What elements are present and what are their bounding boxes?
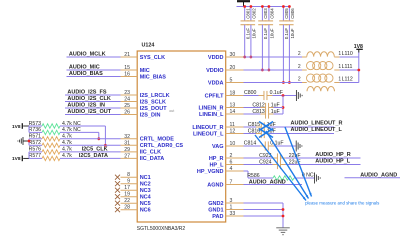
svg-text:C813: C813 bbox=[252, 109, 265, 115]
capacitor C803 bbox=[258, 21, 266, 25]
svg-text:AUDIO_I2S_CLK: AUDIO_I2S_CLK bbox=[67, 96, 110, 102]
pin 10 VAG stub bbox=[226, 145, 244, 147]
svg-text:20: 20 bbox=[230, 65, 236, 71]
wire GND2 bbox=[244, 202, 284, 204]
svg-text:2: 2 bbox=[298, 51, 301, 57]
svg-text:2: 2 bbox=[298, 77, 301, 83]
svg-text:29: 29 bbox=[124, 147, 130, 153]
svg-text:24: 24 bbox=[124, 97, 130, 103]
wire L111 to 1V8 rail bbox=[340, 69, 359, 71]
annotation arrow 3 bbox=[285, 127, 312, 197]
wire C800 to gnd bbox=[273, 95, 297, 97]
wire C806 bottom bbox=[288, 25, 290, 83]
inductor L112 coil bbox=[307, 74, 334, 82]
junction rail C804 bbox=[268, 5, 271, 8]
inductor L111 pin 2 bbox=[302, 69, 307, 71]
capacitor C816 bbox=[261, 129, 264, 138]
wire C813 left bbox=[244, 113, 261, 115]
capacitor C924 pin2 bbox=[280, 164, 285, 166]
svg-text:LINEIN_R: LINEIN_R bbox=[198, 105, 223, 111]
wire C806 top bbox=[288, 7, 290, 21]
capacitor C923 pin2 bbox=[280, 157, 285, 159]
svg-text:NC1: NC1 bbox=[140, 175, 151, 181]
svg-text:10uF: 10uF bbox=[290, 28, 295, 38]
capacitor C814 pin1 bbox=[260, 145, 265, 147]
wire R573 right bbox=[60, 125, 105, 127]
svg-text:VDDA: VDDA bbox=[208, 80, 224, 86]
capacitor C801 bbox=[241, 21, 249, 25]
ground symbol CPFILT bbox=[296, 90, 302, 101]
svg-text:AUDIO_HP_L: AUDIO_HP_L bbox=[315, 158, 350, 164]
pin 17 NC3 stub bbox=[121, 189, 138, 191]
wire L112 to 1V8 rail bbox=[340, 82, 359, 84]
pin 5 VDDA stub bbox=[226, 82, 244, 84]
capacitor C813 pin2 bbox=[269, 113, 274, 115]
resistor R573 zigzag bbox=[42, 124, 60, 128]
resistor R571 zigzag bbox=[42, 137, 60, 141]
wire vert gnd net to linein caps bbox=[282, 96, 284, 115]
wire C816 left bbox=[244, 133, 257, 135]
power flag 1V8 bottom bbox=[12, 156, 22, 163]
svg-text:17: 17 bbox=[124, 185, 130, 191]
svg-text:VDDD: VDDD bbox=[208, 55, 224, 61]
wire net AUDIO_HP_L bbox=[285, 164, 360, 166]
svg-text:AUDIO_AGND: AUDIO_AGND bbox=[249, 180, 286, 186]
svg-text:30: 30 bbox=[230, 52, 236, 58]
wire IIC_CLK net I2C5_CLK bbox=[60, 151, 121, 153]
svg-text:LINEOUT_R: LINEOUT_R bbox=[192, 125, 223, 131]
svg-text:15: 15 bbox=[124, 65, 130, 71]
svg-text:26: 26 bbox=[124, 110, 130, 116]
svg-text:6: 6 bbox=[230, 160, 233, 166]
wire R736 left bbox=[29, 131, 42, 133]
svg-text:11: 11 bbox=[230, 122, 235, 128]
capacitor C806 bbox=[285, 21, 293, 25]
pin 30 VDDD stub bbox=[226, 56, 244, 58]
svg-text:NC4: NC4 bbox=[140, 195, 152, 201]
svg-text:AUDIO_MCLK: AUDIO_MCLK bbox=[69, 52, 106, 58]
junction pin31 row bbox=[104, 144, 107, 147]
svg-text:U124: U124 bbox=[142, 43, 155, 49]
svg-text:HP_L: HP_L bbox=[209, 162, 224, 168]
junction LINEIN_R cap bbox=[282, 106, 285, 109]
capacitor C800 pin2 bbox=[267, 95, 273, 97]
svg-text:AUDIO_MIC: AUDIO_MIC bbox=[69, 65, 100, 71]
power bar 1V8 top bbox=[237, 1, 250, 6]
ground symbol left bbox=[18, 137, 23, 145]
svg-text:C806: C806 bbox=[290, 8, 295, 19]
svg-text:9: 9 bbox=[127, 179, 130, 185]
inductor L110 pin 2 bbox=[302, 56, 307, 58]
svg-text:AUDIO_I2S_OUT: AUDIO_I2S_OUT bbox=[67, 109, 111, 115]
wire R573 left bbox=[29, 125, 42, 127]
wire CRTL_MODE bbox=[60, 138, 121, 140]
svg-text:0.1uF: 0.1uF bbox=[263, 28, 268, 40]
wire net AUDIO_I2S_FS bbox=[65, 94, 121, 96]
wire C802 top bbox=[250, 7, 252, 21]
svg-text:HP_R: HP_R bbox=[209, 156, 224, 162]
svg-text:C814: C814 bbox=[244, 140, 257, 146]
pin 19 NC4 stub bbox=[121, 196, 138, 198]
svg-text:PAD: PAD bbox=[212, 214, 223, 220]
wire net AUDIO_I2S_CLK bbox=[65, 101, 121, 103]
capacitor C816 pin2 bbox=[264, 133, 269, 135]
svg-text:3: 3 bbox=[230, 198, 233, 204]
wire C814 to gnd bbox=[274, 145, 296, 147]
svg-text:25: 25 bbox=[124, 103, 130, 109]
capacitor C815 bbox=[261, 122, 264, 131]
wire net AUDIO_MIC bbox=[67, 69, 121, 71]
capacitor C800 pin1 bbox=[259, 95, 264, 97]
wire 1V8 bottom bbox=[23, 157, 29, 159]
wire to R586 bbox=[248, 177, 273, 179]
wire C801 top bbox=[244, 7, 246, 21]
wire PAD bbox=[244, 215, 284, 217]
capacitor C805 bbox=[279, 21, 287, 25]
resistor R586 zigzag bbox=[273, 176, 294, 180]
svg-text:HP_VGND: HP_VGND bbox=[197, 169, 224, 175]
svg-text:C816: C816 bbox=[248, 128, 261, 134]
svg-text:13: 13 bbox=[230, 103, 236, 109]
svg-text:19: 19 bbox=[124, 192, 130, 198]
svg-text:AUDIO_AGND: AUDIO_AGND bbox=[360, 172, 397, 178]
svg-text:L112: L112 bbox=[342, 77, 353, 83]
pin 29 IIC_CLK stub bbox=[121, 151, 138, 153]
wire R572 left bbox=[29, 144, 42, 146]
svg-text:1V8: 1V8 bbox=[12, 124, 21, 130]
pin 2 HP_R stub bbox=[226, 157, 244, 159]
svg-text:14: 14 bbox=[230, 109, 236, 115]
pin 6 HP_L stub bbox=[226, 164, 244, 166]
wire R736 right bbox=[60, 131, 99, 133]
svg-text:I2S_LRCLK: I2S_LRCLK bbox=[140, 93, 170, 99]
inductor coil unlabeled bbox=[307, 87, 335, 92]
inductor L111 pin 1 bbox=[334, 69, 339, 71]
svg-text:AUDIO_I2S_IN: AUDIO_I2S_IN bbox=[67, 103, 105, 109]
capacitor C814 bbox=[265, 141, 268, 150]
junction rail C802 bbox=[250, 5, 253, 8]
svg-text:33: 33 bbox=[230, 211, 236, 217]
wire gnd to vert bbox=[23, 140, 29, 142]
wire R576 left bbox=[29, 151, 42, 153]
svg-text:I2S_DOUT: I2S_DOUT bbox=[140, 106, 168, 112]
junction rail C806 bbox=[288, 5, 291, 8]
capacitor C802 bbox=[247, 21, 255, 25]
junction rail C801 bbox=[243, 5, 246, 8]
svg-text:C800: C800 bbox=[244, 90, 257, 96]
svg-text:7: 7 bbox=[230, 180, 233, 186]
svg-text:SYS_CLK: SYS_CLK bbox=[140, 55, 165, 61]
wire net AUDIO_LINEOUT_L bbox=[270, 133, 335, 135]
svg-text:C812: C812 bbox=[252, 102, 265, 108]
svg-text:IIC_DATA: IIC_DATA bbox=[140, 156, 165, 162]
wire R586 right bbox=[294, 177, 314, 179]
svg-text:SGTL5000XNBA3/R2: SGTL5000XNBA3/R2 bbox=[137, 226, 186, 232]
pin 25 I2S_DOUT stub bbox=[121, 107, 138, 109]
inductor L111 coil bbox=[307, 62, 334, 70]
wire vert R736 to pin32 row bbox=[98, 132, 100, 138]
capacitor C923 bbox=[277, 153, 280, 162]
no-connect X NC4 bbox=[115, 194, 120, 199]
svg-text:I2S_SCLK: I2S_SCLK bbox=[140, 99, 166, 105]
wire HP_VGND bbox=[244, 170, 249, 172]
pin 15 MIC stub bbox=[121, 69, 138, 71]
svg-text:IIC_CLK: IIC_CLK bbox=[140, 150, 161, 156]
wire AUDIO_AGND right bbox=[345, 177, 400, 179]
wire net AUDIO_I2S_OUT bbox=[65, 114, 121, 116]
junction rail C805 bbox=[282, 5, 285, 8]
pin 22 NC5 stub bbox=[121, 202, 138, 204]
svg-text:1: 1 bbox=[230, 205, 233, 211]
junction pin32 row bbox=[97, 137, 100, 140]
svg-text:C815: C815 bbox=[248, 122, 261, 128]
svg-text:2: 2 bbox=[298, 64, 301, 70]
capacitor C813 bbox=[266, 109, 269, 118]
inductor L110 coil bbox=[307, 52, 335, 57]
svg-text:1uF: 1uF bbox=[271, 109, 280, 115]
svg-text:1uF: 1uF bbox=[271, 102, 280, 108]
svg-text:10: 10 bbox=[230, 141, 236, 147]
svg-text:I2C5_CLK: I2C5_CLK bbox=[82, 147, 108, 153]
svg-text:MIC_BIAS: MIC_BIAS bbox=[140, 74, 167, 80]
junction C801 VDDD bbox=[243, 56, 246, 59]
svg-text:I2C5_DATA: I2C5_DATA bbox=[79, 153, 108, 159]
wire C804 top bbox=[268, 7, 270, 21]
wire C805 top bbox=[282, 7, 284, 21]
inductor L112 pin 2 bbox=[302, 82, 307, 84]
svg-text:0.1uF: 0.1uF bbox=[270, 90, 283, 96]
svg-text:AUDIO_LINEOUT_L: AUDIO_LINEOUT_L bbox=[291, 127, 343, 133]
pin 32 CRTL_MODE stub bbox=[121, 138, 138, 140]
no-connect X NC3 bbox=[115, 188, 120, 193]
wire supply row to L111 bbox=[244, 69, 303, 71]
pin 13 LINEIN_R stub bbox=[226, 107, 244, 109]
wire GND1 bbox=[244, 209, 284, 211]
svg-text:MIC: MIC bbox=[140, 68, 150, 74]
wire C803 bottom bbox=[261, 25, 263, 70]
svg-text:NC5: NC5 bbox=[140, 201, 151, 207]
svg-text:C924: C924 bbox=[259, 159, 272, 165]
capacitor C815 pin1 bbox=[256, 126, 261, 128]
capacitor C804 bbox=[265, 21, 273, 25]
junction C803 VDDIO bbox=[261, 69, 264, 72]
svg-text:AUDIO_I2S_FS: AUDIO_I2S_FS bbox=[67, 90, 106, 96]
wire vert 1V8 to R736 row bbox=[28, 126, 30, 132]
wire top rail 1V8 bbox=[237, 6, 290, 8]
wire C923 left bbox=[244, 157, 273, 159]
wire C813 right bbox=[274, 113, 284, 115]
annotation X over C816 bbox=[259, 129, 273, 138]
capacitor C813 pin1 bbox=[261, 113, 266, 115]
no-connect X NC6 bbox=[115, 207, 120, 212]
svg-text:21: 21 bbox=[124, 52, 130, 58]
svg-text:5: 5 bbox=[230, 78, 233, 84]
wire C801 bottom bbox=[244, 25, 246, 57]
svg-text:CPFILT: CPFILT bbox=[205, 93, 224, 99]
wire net AUDIO_BIAS bbox=[67, 76, 121, 78]
wire net AUDIO_MCLK bbox=[67, 56, 121, 58]
pin 4 HP_VGND stub bbox=[226, 170, 244, 172]
svg-text:LINEIN_L: LINEIN_L bbox=[199, 112, 224, 118]
op-amp/codec U124 SGTL5000 body bbox=[137, 51, 226, 222]
pin 26 I2S_DIN stub bbox=[121, 114, 138, 116]
capacitor C812 bbox=[266, 103, 269, 112]
svg-text:AUDIO_BIAS: AUDIO_BIAS bbox=[69, 71, 103, 77]
wire C812 left bbox=[244, 107, 261, 109]
wire supply row to L112 bbox=[244, 82, 303, 84]
annotation arrow 2 bbox=[266, 131, 309, 199]
capacitor C816 pin1 bbox=[256, 133, 261, 135]
wire net AUDIO_I2S_IN bbox=[65, 107, 121, 109]
pin 1 GND1 stub bbox=[226, 209, 244, 211]
wire HP_VGND vert bbox=[247, 171, 249, 178]
wire vert R573 to pin31 row bbox=[104, 126, 106, 145]
junction PAD bbox=[282, 215, 285, 218]
junction C800 gnd net bbox=[282, 94, 285, 97]
wire C804 bottom bbox=[268, 25, 270, 70]
wire C802 bottom bbox=[250, 25, 252, 57]
svg-text:8: 8 bbox=[127, 172, 130, 178]
svg-text:2: 2 bbox=[230, 153, 233, 159]
svg-text:C802: C802 bbox=[252, 8, 257, 19]
svg-text:12: 12 bbox=[230, 129, 236, 135]
svg-text:C803: C803 bbox=[263, 8, 268, 19]
annotation X over C815 bbox=[259, 122, 273, 131]
pin 16 MIC_BIAS stub bbox=[121, 76, 138, 78]
capacitor C924 bbox=[277, 160, 280, 169]
svg-text:10uF: 10uF bbox=[252, 28, 257, 38]
pin 28 NC6 stub bbox=[121, 209, 138, 211]
wire vert R571-R572 bbox=[28, 139, 30, 146]
pin 31 CRTL_ADR0_CS stub bbox=[121, 144, 138, 146]
svg-text:C801: C801 bbox=[245, 8, 250, 19]
junction C805 VDDA bbox=[282, 81, 285, 84]
svg-text:GND2: GND2 bbox=[208, 201, 223, 207]
annotation arrow 1 bbox=[255, 135, 306, 201]
wire C924 left bbox=[244, 164, 273, 166]
wire R577 left bbox=[29, 157, 42, 159]
resistor R576 zigzag bbox=[42, 150, 60, 154]
svg-text:22: 22 bbox=[124, 198, 130, 204]
svg-text:4: 4 bbox=[230, 166, 233, 172]
wire IIC_DATA net I2C5_DATA bbox=[60, 157, 121, 159]
svg-text:NC2: NC2 bbox=[140, 182, 151, 188]
wire C815 left bbox=[244, 126, 257, 128]
wire CPFILT bbox=[244, 95, 259, 97]
svg-text:27: 27 bbox=[124, 153, 130, 159]
svg-text:VDDIO: VDDIO bbox=[206, 68, 224, 74]
wire 1V8 rail vertical bbox=[358, 53, 360, 83]
wire VAG bbox=[244, 145, 261, 147]
svg-text:C804: C804 bbox=[270, 8, 275, 19]
capacitor C924 pin1 bbox=[273, 164, 278, 166]
svg-text:AUDIO_HP_R: AUDIO_HP_R bbox=[315, 152, 350, 158]
wire 1V8 to R573 row bbox=[23, 125, 29, 127]
wire net AUDIO_HP_R bbox=[285, 157, 360, 159]
svg-text:AUDIO_LINEOUT_R: AUDIO_LINEOUT_R bbox=[291, 121, 343, 127]
junction gnd bbox=[28, 140, 31, 143]
svg-text:CRTL_ADR0_CS: CRTL_ADR0_CS bbox=[140, 143, 184, 149]
ground symbol VAG bbox=[296, 141, 302, 152]
svg-text:LINEOUT_L: LINEOUT_L bbox=[193, 131, 224, 137]
pin 3 GND2 stub bbox=[226, 202, 244, 204]
pin 23 I2S_LRCLK stub bbox=[121, 94, 138, 96]
svg-text:NC6: NC6 bbox=[140, 208, 151, 214]
capacitor C812 pin1 bbox=[261, 107, 266, 109]
wire C812 right bbox=[274, 107, 284, 109]
junction C806 VDDA bbox=[288, 81, 291, 84]
wire C805 bottom bbox=[282, 25, 284, 83]
pin 7 AGND stub bbox=[226, 184, 244, 186]
power flag 1V8 top bbox=[12, 123, 22, 130]
ground symbol bottom bbox=[276, 228, 290, 235]
inductor L110 pin 1 bbox=[334, 56, 339, 58]
svg-text:R586: R586 bbox=[247, 173, 260, 179]
capacitor C923 pin1 bbox=[273, 157, 278, 159]
no-connect X NC2 bbox=[115, 181, 120, 186]
pin 12 LINEOUT_L stub bbox=[226, 133, 244, 135]
svg-text:23: 23 bbox=[124, 90, 130, 96]
wire CRTL_ADR0_CS bbox=[60, 144, 121, 146]
svg-text:AGND: AGND bbox=[207, 182, 223, 188]
capacitor C812 pin2 bbox=[269, 107, 274, 109]
pin 11 LINEOUT_R stub bbox=[226, 126, 244, 128]
pin 24 I2S_SCLK stub bbox=[121, 101, 138, 103]
no-connect X NC1 bbox=[115, 175, 120, 180]
svg-text:GND1: GND1 bbox=[208, 207, 223, 213]
wire net AUDIO_LINEOUT_R bbox=[270, 126, 335, 128]
wire gnd vertical bbox=[282, 203, 284, 228]
svg-text:L110: L110 bbox=[342, 51, 353, 57]
junction L111 rail bbox=[357, 69, 360, 72]
svg-text:18: 18 bbox=[230, 91, 236, 97]
pin 27 IIC_DATA stub bbox=[121, 157, 138, 159]
resistor R577 zigzag bbox=[42, 156, 60, 160]
svg-text:0.1uF: 0.1uF bbox=[284, 28, 289, 40]
capacitor C814 pin2 bbox=[268, 145, 273, 147]
junction C804 VDDIO bbox=[268, 69, 271, 72]
wire supply row to L110 bbox=[244, 56, 303, 58]
pin 18 CPFILT stub bbox=[226, 95, 244, 97]
no-connect X NC5 bbox=[115, 201, 120, 206]
pin 14 LINEIN_L stub bbox=[226, 113, 244, 115]
junction C802 VDDD bbox=[250, 56, 253, 59]
svg-text:NC3: NC3 bbox=[140, 188, 151, 194]
svg-text:31: 31 bbox=[124, 140, 130, 146]
svg-text:I2S_DIN: I2S_DIN bbox=[140, 112, 161, 118]
pin 8 NC1 stub bbox=[121, 176, 138, 178]
junction GND1 bbox=[282, 208, 285, 211]
wire R571 left bbox=[29, 138, 42, 140]
svg-text:10uF: 10uF bbox=[270, 28, 275, 38]
svg-text:16: 16 bbox=[124, 72, 130, 78]
pin 20 VDDIO stub bbox=[226, 69, 244, 71]
resistor R572 zigzag bbox=[42, 143, 60, 147]
inductor L112 pin 1 bbox=[334, 82, 339, 84]
pin 33 PAD stub bbox=[226, 215, 244, 217]
svg-text:VAG: VAG bbox=[212, 144, 224, 150]
svg-text:CRTL_MODE: CRTL_MODE bbox=[140, 137, 175, 143]
power flag 1V8 right bbox=[354, 44, 363, 53]
wire L110 to 1V8 rail bbox=[340, 56, 359, 58]
pin 9 NC2 stub bbox=[121, 183, 138, 185]
svg-text:L111: L111 bbox=[342, 64, 353, 70]
wire vert R576-R577 bbox=[28, 152, 30, 159]
capacitor C800 bbox=[264, 91, 267, 100]
svg-text:1V8: 1V8 bbox=[12, 156, 21, 162]
resistor R736 zigzag bbox=[42, 130, 60, 134]
pin 21 SYS_CLK stub bbox=[121, 56, 138, 58]
